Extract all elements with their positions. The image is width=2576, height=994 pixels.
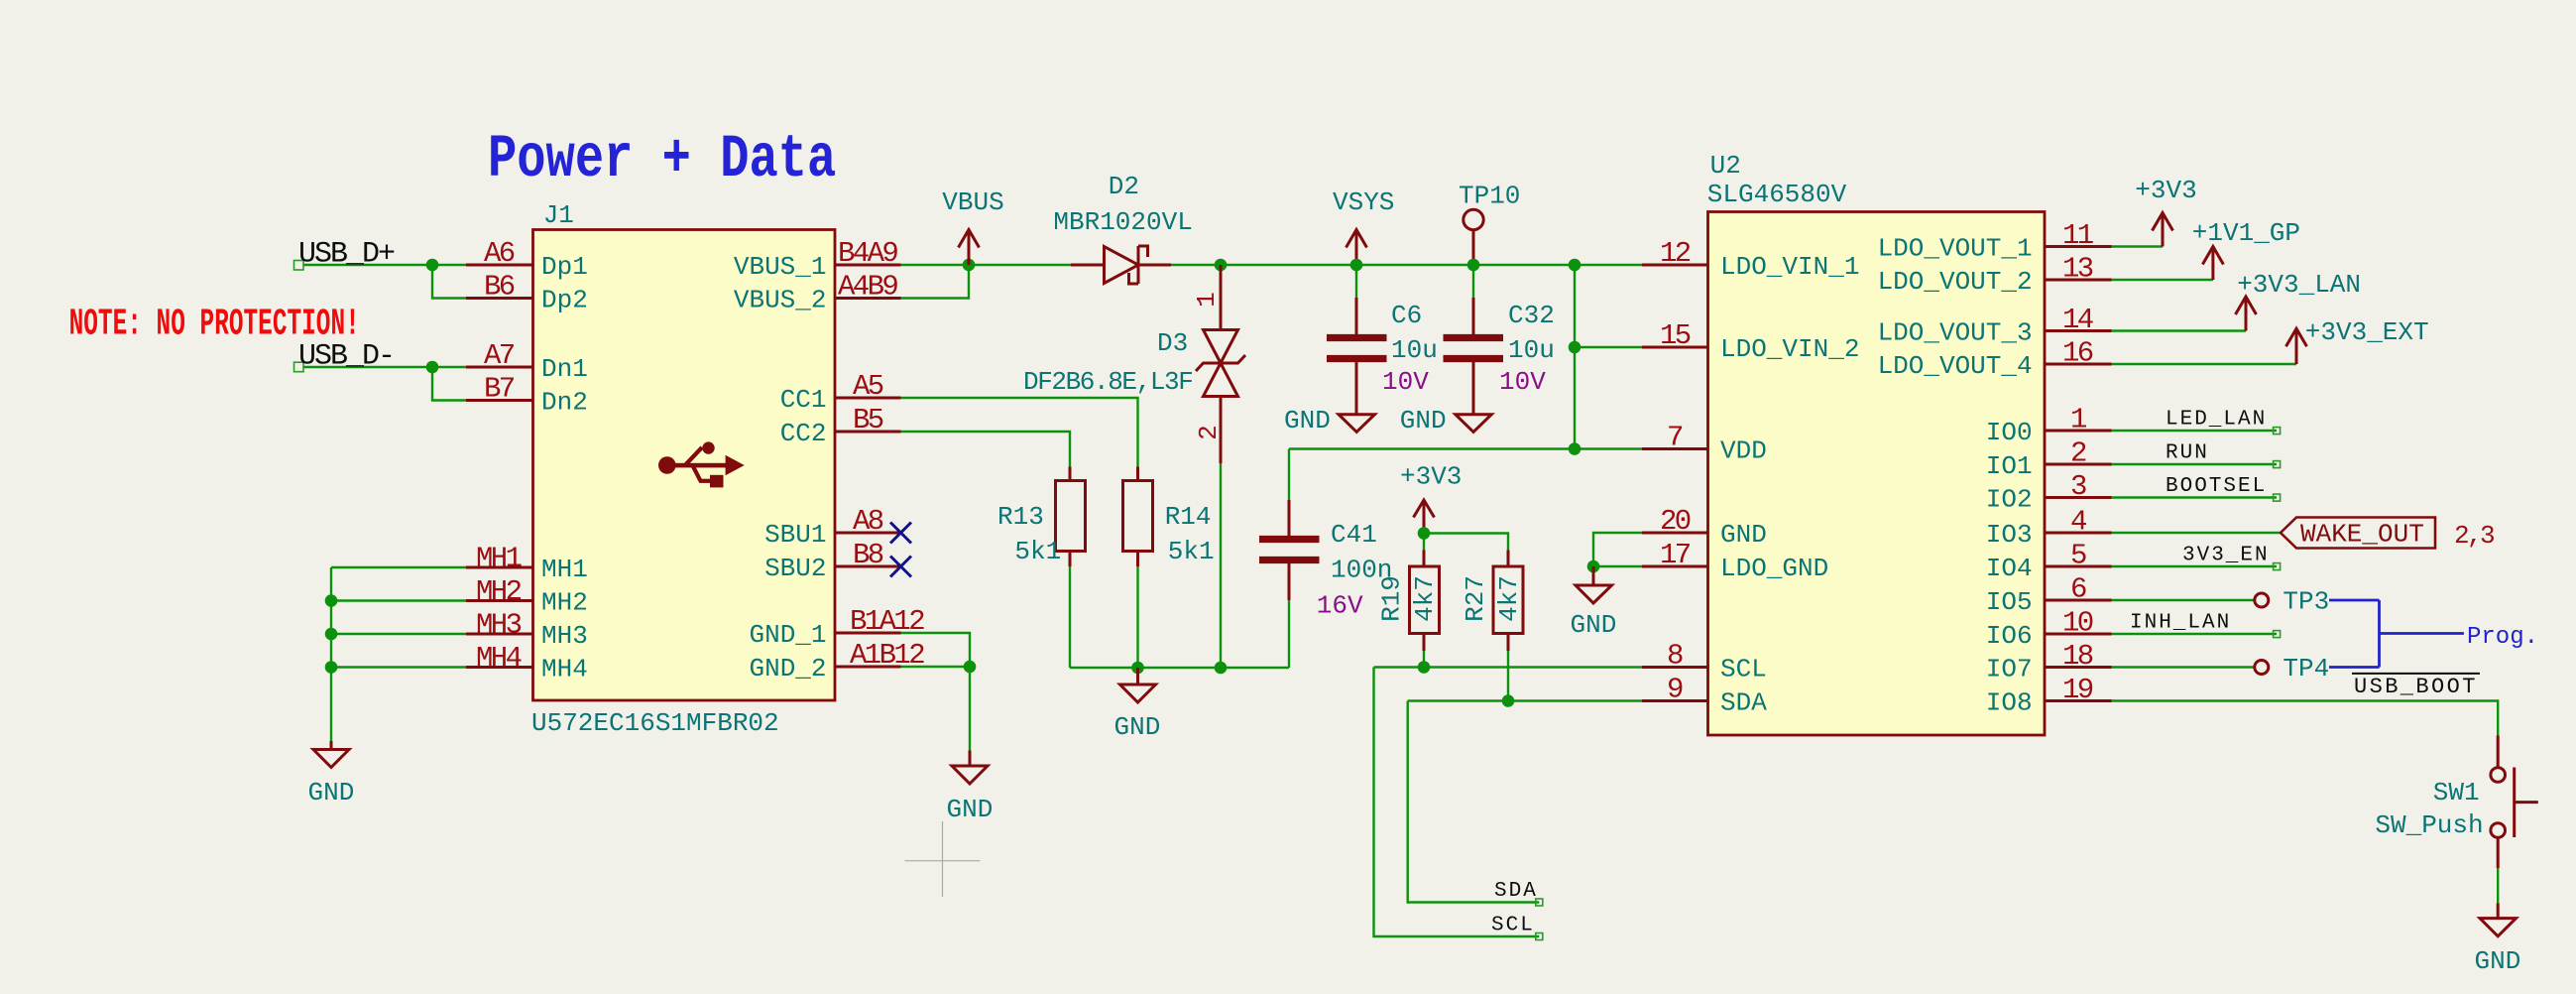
svg-text:7: 7 [1667,422,1683,454]
power symbol VSYS [1333,187,1394,265]
svg-text:LDO_GND: LDO_GND [1720,554,1828,583]
svg-text:LDO_VIN_2: LDO_VIN_2 [1720,334,1859,364]
svg-text:10u: 10u [1391,335,1438,365]
net label USB_BOOT with overbar [2352,674,2480,699]
svg-text:USB_D-: USB_D- [298,340,394,374]
svg-text:Dp1: Dp1 [541,252,588,282]
svg-text:USB_BOOT: USB_BOOT [2354,675,2478,699]
svg-text:15: 15 [1660,319,1691,352]
wire MH4 [331,666,466,668]
svg-text:A7: A7 [484,339,515,372]
wire jog to Dp2 [432,265,466,299]
svg-text:5: 5 [2070,540,2086,572]
U2 pin 17 LDO_GND [1642,539,1828,583]
IC U2 [1707,151,2045,735]
svg-text:19: 19 [2062,674,2093,706]
svg-text:VBUS_2: VBUS_2 [734,286,827,315]
wire to pin 15 [1575,346,1642,348]
note NO PROTECTION [69,302,360,345]
U2 pin 11 LDO_VOUT_1 [1878,219,2112,264]
wire LDO_VIN vertical [1574,265,1576,449]
wire VBUS_1 to D2 [901,264,1072,266]
svg-text:SDA: SDA [1494,880,1538,903]
svg-text:MH1: MH1 [476,543,522,575]
wire down to ground [969,667,971,751]
svg-text:LDO_VOUT_3: LDO_VOUT_3 [1878,318,2033,348]
svg-text:B8: B8 [853,539,883,571]
svg-text:U2: U2 [1710,151,1741,181]
capacitor C32 [1444,265,1555,415]
J1 pin Dp1 A6 [466,237,588,282]
svg-text:GND_2: GND_2 [749,654,826,683]
svg-text:CC1: CC1 [780,385,827,415]
svg-text:10V: 10V [1499,367,1546,397]
wire IO1 RUN [2112,463,2278,465]
svg-text:MH3: MH3 [476,609,522,642]
svg-text:GND: GND [1571,610,1617,640]
ground LDO_GND [1571,566,1617,640]
power symbol VBUS [942,187,1003,265]
resistor R13 [901,432,1086,668]
svg-text:D2: D2 [1109,172,1139,201]
wire SW1 to ground [2497,868,2499,903]
svg-text:+1V1_GP: +1V1_GP [2192,218,2300,248]
svg-text:GND: GND [308,778,355,808]
svg-text:D3: D3 [1157,328,1188,358]
svg-text:16: 16 [2062,337,2093,370]
J1 pin VBUS_1 B4A9 [734,237,901,282]
U2 pin 19 IO8 [1986,674,2112,718]
svg-text:SCL: SCL [1720,655,1767,684]
svg-text:3V3_EN: 3V3_EN [2182,545,2270,567]
hierarchical label WAKE_OUT [2281,518,2494,552]
wire VDD [1289,447,1642,449]
test point TP10 [1459,182,1520,266]
svg-text:GND_1: GND_1 [749,620,826,650]
J1 pin Dn2 B7 [466,373,588,418]
svg-text:TP3: TP3 [2283,587,2329,617]
junction MH3 [325,628,338,641]
svg-text:Dn2: Dn2 [541,388,588,418]
svg-text:4: 4 [2070,506,2086,539]
U2 pin 18 IO7 [1986,640,2112,684]
wire IO2 BOOTSEL [2112,496,2278,498]
svg-text:B5: B5 [853,404,883,436]
ground C6 [1284,406,1375,435]
power symbol +3V3 (R19) [1400,462,1462,534]
svg-text:J1: J1 [543,200,574,230]
svg-text:Dn1: Dn1 [541,354,588,384]
svg-text:10u: 10u [1508,335,1555,365]
svg-text:+3V3: +3V3 [1400,462,1462,492]
junction VBUS [963,259,976,272]
USB icon inside J1 [658,441,745,487]
U2 pin 15 LDO_VIN_2 [1642,319,1859,364]
U2 pin 9 SDA [1642,674,1767,718]
resistor R14 [901,398,1215,668]
svg-text:+3V3_LAN: +3V3_LAN [2237,270,2361,300]
svg-text:BOOTSEL: BOOTSEL [2166,475,2267,498]
svg-text:16V: 16V [1317,591,1363,621]
U2 pin 14 LDO_VOUT_3 [1878,304,2112,348]
J1 pin SBU1 A8 [764,505,900,550]
ground SW1 [2475,903,2521,976]
svg-text:3: 3 [2070,470,2086,503]
svg-text:MH2: MH2 [476,575,522,608]
svg-text:IO6: IO6 [1986,621,2033,651]
svg-text:SBU1: SBU1 [764,520,826,550]
no-connect X SBU2 [890,557,911,577]
U2 pin 8 SCL [1642,640,1767,684]
svg-text:LDO_VOUT_2: LDO_VOUT_2 [1878,267,2033,297]
capacitor C41 [1259,449,1392,669]
wire IO3 WAKE_OUT [2112,532,2282,534]
svg-text:+3V3: +3V3 [2135,176,2196,205]
svg-text:A6: A6 [484,237,515,270]
junction GND_2 [964,661,977,674]
svg-text:Prog.: Prog. [2467,624,2538,651]
svg-text:12: 12 [1660,237,1691,270]
svg-text:MBR1020VL: MBR1020VL [1053,207,1192,237]
U2 pin 12 LDO_VIN_1 [1642,237,1859,282]
svg-text:C32: C32 [1508,301,1555,330]
wire D3 down [1220,463,1222,668]
title Power + Data [488,125,836,194]
svg-text:MH4: MH4 [476,642,522,675]
J1 pin GND_1 B1A12 [749,605,924,650]
wire MH3 [331,633,466,635]
junction pin17 [1587,560,1600,573]
svg-text:20: 20 [1660,505,1691,538]
svg-text:CC2: CC2 [780,419,827,448]
svg-text:IO1: IO1 [1986,451,2033,481]
connector J1 [531,200,835,738]
ground rail [1114,668,1161,742]
svg-text:USB_D+: USB_D+ [298,238,395,272]
wire IO7 TP4 [2112,666,2255,668]
svg-text:WAKE_OUT: WAKE_OUT [2300,520,2424,550]
svg-text:U572EC16S1MFBR02: U572EC16S1MFBR02 [531,708,779,738]
svg-text:IO5: IO5 [1986,587,2033,617]
resistor R19 [1376,534,1440,668]
svg-text:R19: R19 [1376,575,1406,622]
switch SW1 [2375,736,2537,869]
J1 pin CC2 B5 [780,404,901,448]
no-connect X SBU1 [890,523,911,544]
junction USB_D- [426,361,439,374]
svg-text:A5: A5 [853,370,883,403]
J1 pin SBU2 B8 [764,539,900,583]
J1 pin MH1 [466,543,588,585]
U2 pin 4 IO3 [1986,506,2112,551]
svg-text:R27: R27 [1461,575,1490,622]
J1 pin CC1 A5 [780,370,901,415]
svg-text:MH4: MH4 [541,655,588,684]
global label USB_D+ [294,238,396,272]
svg-text:A4B9: A4B9 [838,271,897,304]
wire SCL down [1374,668,1540,937]
svg-text:2: 2 [1194,425,1224,440]
svg-text:C6: C6 [1391,301,1422,330]
svg-text:IO7: IO7 [1986,655,2033,684]
wire bottom rail [1070,667,1289,669]
wire GND_1 jog [901,633,971,667]
junction VSYS [1350,259,1363,272]
svg-text:GND: GND [1114,712,1161,742]
svg-text:IO8: IO8 [1986,688,2033,718]
power symbol +3V3_LAN [2236,270,2362,331]
J1 pin MH2 [466,575,588,618]
svg-text:6: 6 [2070,573,2086,606]
wire D2 to rail [1171,264,1221,266]
wire pin16 [2112,363,2297,365]
svg-text:VDD: VDD [1720,436,1767,466]
global label BOOTSEL [2166,475,2281,501]
svg-text:18: 18 [2062,640,2093,673]
global label USB_D- [294,340,395,374]
svg-text:SW1: SW1 [2433,778,2480,808]
svg-text:LDO_VOUT_1: LDO_VOUT_1 [1878,234,2033,264]
svg-text:RUN: RUN [2166,442,2209,465]
svg-text:INH_LAN: INH_LAN [2130,612,2231,635]
U2 pin 6 IO5 [1986,573,2112,618]
U2 pin 1 IO0 [1986,404,2112,448]
junction R27 SDA [1502,694,1515,707]
svg-text:9: 9 [1667,674,1683,706]
global label LED_LAN [2166,409,2281,435]
global label 3V3_EN [2182,545,2281,570]
wire MH bus vertical [330,567,332,741]
sheet center marker cross [905,821,981,897]
svg-text:Power + Data: Power + Data [488,125,836,194]
svg-text:VBUS: VBUS [942,187,1003,217]
svg-text:IO3: IO3 [1986,520,2033,550]
junction D3 tap [1215,259,1228,272]
J1 pin MH3 [466,609,588,652]
wire IO6 INH_LAN [2112,633,2278,635]
diode D2 [1053,172,1192,284]
svg-text:DF2B6.8E,L3F: DF2B6.8E,L3F [1023,367,1192,397]
junction +3V3 [1418,527,1431,540]
svg-text:1: 1 [2070,404,2086,436]
svg-text:B4A9: B4A9 [838,237,897,270]
J1 pin MH4 [466,642,588,684]
svg-text:SBU2: SBU2 [764,554,826,583]
wire pin14 [2112,329,2247,331]
junction D3 gnd [1215,662,1228,675]
resistor R27 [1461,551,1524,701]
junction TP10 [1467,259,1480,272]
svg-text:A8: A8 [853,505,883,538]
test point TP3 [2255,587,2329,617]
svg-text:4k7: 4k7 [1494,575,1524,622]
svg-text:MH1: MH1 [541,555,588,584]
wire jog to Dn2 [432,367,466,401]
svg-text:SLG46580V: SLG46580V [1707,180,1847,209]
wire IO4 3V3_EN [2112,565,2278,567]
svg-text:17: 17 [1660,539,1691,571]
svg-text:IO4: IO4 [1986,554,2033,583]
svg-text:LED_LAN: LED_LAN [2166,409,2267,432]
wire SDA rail [1408,699,1642,701]
svg-text:TP4: TP4 [2283,654,2329,683]
J1 pin Dn1 A7 [466,339,588,384]
power symbol +3V3 (pin11) [2135,176,2196,247]
svg-text:5k1: 5k1 [1168,537,1215,566]
svg-text:LDO_VOUT_4: LDO_VOUT_4 [1878,351,2033,381]
svg-text:VSYS: VSYS [1333,187,1394,217]
diode D3 TVS [1023,265,1245,463]
U2 pin 5 IO4 [1986,540,2112,584]
svg-text:R14: R14 [1165,502,1212,532]
svg-text:GND: GND [1720,520,1767,550]
wire pin17 [1593,565,1642,567]
svg-text:GND: GND [947,795,994,824]
J1 pin Dp2 B6 [466,271,588,315]
U2 pin 3 IO2 [1986,470,2112,515]
junction MH4 [325,661,338,674]
junction R14 gnd [1131,662,1144,675]
U2 pin 7 VDD [1642,422,1767,466]
wire GND_2 [901,666,971,668]
U2 pin 10 IO6 [1986,607,2112,652]
junction R19 SCL [1418,661,1431,674]
U2 pin 20 GND [1642,505,1767,550]
J1 pin GND_2 A1B12 [749,639,924,683]
junction MH2 [325,594,338,607]
wire MH2 [331,599,466,601]
test point TP4 [2255,654,2329,683]
svg-text:GND: GND [2475,946,2521,976]
global label RUN [2166,442,2281,468]
junction pin15 [1569,341,1581,354]
graphic lines Prog bracket [2329,600,2464,668]
U2 pin 13 LDO_VOUT_2 [1878,253,2112,298]
svg-text:C41: C41 [1331,520,1377,550]
svg-text:SDA: SDA [1720,688,1767,718]
wire pin13 [2112,279,2213,281]
svg-text:2: 2 [2070,437,2086,470]
svg-text:11: 11 [2062,219,2093,252]
svg-text:2,3: 2,3 [2454,521,2494,551]
wire main rail [1221,264,1642,266]
svg-text:13: 13 [2062,253,2093,286]
svg-text:IO2: IO2 [1986,485,2033,515]
svg-text:4k7: 4k7 [1410,575,1440,622]
wire SDA down [1408,701,1540,903]
capacitor C6 [1327,265,1438,415]
junction VDD [1569,442,1581,455]
svg-text:Dp2: Dp2 [541,286,588,315]
wire pin11 [2112,245,2164,247]
svg-text:LDO_VIN_1: LDO_VIN_1 [1720,252,1859,282]
svg-text:MH2: MH2 [541,588,588,618]
wire IO5 TP3 [2112,599,2255,601]
ground MH [308,741,355,808]
svg-text:GND: GND [1284,406,1331,435]
U2 pin 2 IO1 [1986,437,2112,482]
junction USB_D+ [426,259,439,272]
svg-text:TP10: TP10 [1459,182,1520,211]
svg-text:B6: B6 [484,271,515,304]
junction rail [1569,259,1581,272]
wire IO8 USB_BOOT [2112,701,2499,736]
svg-text:SW_Push: SW_Push [2375,810,2483,840]
svg-text:R13: R13 [997,502,1044,532]
svg-text:B7: B7 [484,373,515,406]
svg-text:5k1: 5k1 [1014,537,1061,566]
svg-text:IO0: IO0 [1986,418,2033,447]
svg-text:MH3: MH3 [541,621,588,651]
wire +3V3 to R27 [1424,534,1508,551]
svg-text:VBUS_1: VBUS_1 [734,252,827,282]
svg-text:8: 8 [1667,640,1683,673]
J1 pin VBUS_2 A4B9 [734,271,901,315]
wire IO0 LED_LAN [2112,430,2278,432]
svg-text:10: 10 [2062,607,2093,640]
svg-text:GND: GND [1400,406,1447,435]
U2 pin 16 LDO_VOUT_4 [1878,337,2112,382]
ground J1 [947,751,994,825]
wire USB_D- to J1 [303,366,466,368]
wire MH1 [331,566,466,568]
wire VBUS_2 jog up [901,265,970,299]
global label INH_LAN [2130,612,2281,638]
svg-text:+3V3_EXT: +3V3_EXT [2305,317,2429,347]
ground C32 [1400,406,1492,435]
wire SCL rail [1374,666,1643,668]
svg-text:1: 1 [1192,292,1222,308]
svg-text:14: 14 [2062,304,2093,336]
wire pin20 jog [1593,533,1642,566]
power symbol +3V3_EXT [2286,317,2429,364]
wire USB_D+ to J1 [303,264,466,266]
power symbol +1V1_GP [2192,218,2300,280]
global label SCL [1491,915,1543,940]
svg-text:10V: 10V [1382,367,1429,397]
global label SDA [1494,880,1543,906]
svg-text:SCL: SCL [1491,915,1535,937]
